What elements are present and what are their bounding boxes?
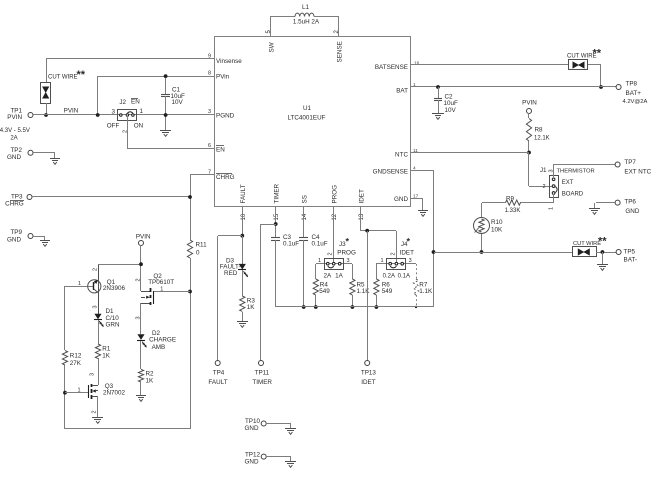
svg-text:1: 1 bbox=[318, 258, 321, 264]
svg-text:R11: R11 bbox=[196, 242, 208, 249]
svg-text:AMB: AMB bbox=[152, 344, 166, 351]
svg-text:1.1K: 1.1K bbox=[357, 288, 371, 295]
svg-text:TIMER: TIMER bbox=[252, 379, 272, 386]
svg-text:THERMISTOR: THERMISTOR bbox=[557, 169, 595, 175]
svg-text:**: ** bbox=[598, 235, 607, 247]
svg-text:2N3906: 2N3906 bbox=[103, 285, 126, 292]
svg-text:CUT WIRE: CUT WIRE bbox=[573, 241, 601, 247]
svg-text:TP4: TP4 bbox=[213, 370, 225, 377]
svg-text:3: 3 bbox=[409, 258, 412, 264]
svg-text:1: 1 bbox=[380, 258, 383, 264]
svg-text:3: 3 bbox=[90, 373, 96, 376]
svg-text:R1: R1 bbox=[102, 346, 111, 353]
svg-text:FAULT: FAULT bbox=[240, 184, 247, 203]
svg-text:2A: 2A bbox=[10, 136, 17, 142]
svg-text:LTC4001EUF: LTC4001EUF bbox=[287, 115, 325, 122]
svg-text:1: 1 bbox=[78, 281, 81, 287]
svg-text:1: 1 bbox=[160, 286, 163, 292]
svg-text:ON: ON bbox=[134, 123, 144, 130]
svg-text:FAULT: FAULT bbox=[208, 379, 227, 386]
svg-text:RED: RED bbox=[224, 270, 238, 277]
svg-text:10uF: 10uF bbox=[444, 100, 459, 107]
svg-text:2: 2 bbox=[91, 410, 97, 413]
svg-text:1: 1 bbox=[549, 207, 555, 210]
svg-text:R9: R9 bbox=[506, 195, 515, 202]
svg-text:NTC: NTC bbox=[395, 151, 408, 158]
svg-text:TP12: TP12 bbox=[245, 451, 261, 458]
svg-text:2A: 2A bbox=[323, 273, 332, 280]
svg-text:2: 2 bbox=[390, 252, 396, 255]
svg-text:Vinsense: Vinsense bbox=[216, 58, 242, 65]
svg-text:PROG: PROG bbox=[337, 249, 356, 256]
svg-text:GND: GND bbox=[7, 154, 21, 161]
svg-text:3: 3 bbox=[347, 258, 350, 264]
svg-text:SW: SW bbox=[268, 42, 275, 52]
svg-text:TP8: TP8 bbox=[626, 81, 638, 88]
svg-text:GND: GND bbox=[7, 236, 21, 243]
svg-text:3: 3 bbox=[549, 169, 555, 172]
svg-text:J2: J2 bbox=[119, 99, 126, 106]
svg-text:0.1uF: 0.1uF bbox=[312, 241, 328, 248]
svg-text:1A: 1A bbox=[335, 273, 344, 280]
svg-text:IDET: IDET bbox=[361, 379, 375, 386]
svg-text:10: 10 bbox=[241, 213, 247, 220]
svg-text:0: 0 bbox=[196, 250, 200, 257]
svg-text:GRN: GRN bbox=[106, 322, 120, 329]
svg-text:TP0610T: TP0610T bbox=[148, 279, 174, 286]
svg-text:0.1A: 0.1A bbox=[398, 274, 410, 280]
svg-text:*: * bbox=[346, 237, 350, 247]
svg-text:EN: EN bbox=[216, 146, 225, 153]
svg-text:1.5uH 2A: 1.5uH 2A bbox=[293, 19, 320, 26]
svg-text:1: 1 bbox=[413, 82, 416, 88]
svg-text:8: 8 bbox=[208, 71, 211, 77]
svg-text:1: 1 bbox=[77, 388, 80, 394]
svg-text:U1: U1 bbox=[303, 105, 312, 112]
svg-text:1K: 1K bbox=[102, 353, 111, 360]
svg-text:R8: R8 bbox=[535, 127, 544, 134]
svg-text:16: 16 bbox=[414, 60, 420, 66]
svg-text:12: 12 bbox=[332, 213, 338, 220]
svg-text:12.1K: 12.1K bbox=[534, 135, 550, 141]
svg-text:EXT: EXT bbox=[562, 180, 574, 186]
svg-text:10K: 10K bbox=[491, 227, 503, 234]
svg-text:CHRG: CHRG bbox=[216, 174, 235, 181]
svg-text:10V: 10V bbox=[445, 107, 457, 114]
svg-text:0.2A: 0.2A bbox=[383, 274, 395, 280]
svg-text:TP6: TP6 bbox=[624, 198, 636, 205]
svg-text:2: 2 bbox=[136, 278, 142, 281]
svg-text:GND: GND bbox=[394, 196, 408, 203]
svg-text:549: 549 bbox=[319, 288, 330, 295]
svg-text:TP5: TP5 bbox=[624, 248, 636, 255]
svg-text:1.33K: 1.33K bbox=[505, 208, 521, 214]
svg-text:PVIN: PVIN bbox=[522, 99, 537, 106]
svg-text:PGND: PGND bbox=[216, 112, 235, 119]
svg-text:PVIN: PVIN bbox=[64, 108, 79, 115]
svg-text:PVin: PVin bbox=[216, 74, 230, 81]
svg-text:4.2V@2A: 4.2V@2A bbox=[623, 99, 648, 105]
svg-text:IDET: IDET bbox=[358, 189, 365, 203]
svg-text:OFF: OFF bbox=[107, 123, 120, 130]
svg-text:PVIN: PVIN bbox=[7, 114, 22, 121]
svg-text:GND: GND bbox=[625, 208, 639, 215]
svg-text:6: 6 bbox=[208, 143, 211, 149]
svg-text:R10: R10 bbox=[491, 219, 503, 226]
svg-text:2: 2 bbox=[542, 184, 545, 190]
svg-text:GND: GND bbox=[245, 425, 259, 432]
svg-text:4.3V - 5.5V: 4.3V - 5.5V bbox=[0, 128, 30, 134]
svg-text:BAT: BAT bbox=[396, 87, 408, 94]
svg-text:1.1K: 1.1K bbox=[419, 288, 433, 295]
svg-text:BATSENSE: BATSENSE bbox=[375, 64, 408, 71]
svg-text:GND: GND bbox=[245, 458, 259, 465]
svg-text:PVIN: PVIN bbox=[136, 233, 151, 240]
svg-text:27K: 27K bbox=[70, 360, 82, 367]
svg-text:IDET: IDET bbox=[400, 249, 414, 256]
svg-text:1K: 1K bbox=[247, 304, 256, 311]
svg-text:*: * bbox=[407, 237, 411, 247]
svg-text:**: ** bbox=[77, 69, 86, 81]
svg-text:PROG: PROG bbox=[331, 185, 338, 204]
svg-text:R12: R12 bbox=[70, 353, 82, 360]
svg-text:TP10: TP10 bbox=[245, 418, 261, 425]
svg-text:0.1uF: 0.1uF bbox=[283, 241, 299, 248]
svg-text:BOARD: BOARD bbox=[562, 191, 584, 197]
svg-text:R2: R2 bbox=[146, 371, 155, 378]
svg-text:2: 2 bbox=[92, 268, 98, 271]
svg-text:EN: EN bbox=[131, 99, 140, 106]
svg-text:BAT+: BAT+ bbox=[626, 90, 642, 97]
svg-text:CHRG: CHRG bbox=[5, 201, 24, 208]
svg-text:TIMER: TIMER bbox=[274, 183, 281, 203]
svg-text:SENSE: SENSE bbox=[336, 41, 343, 62]
svg-text:SS: SS bbox=[302, 195, 309, 203]
svg-text:1K: 1K bbox=[146, 378, 155, 385]
svg-text:1: 1 bbox=[140, 108, 144, 115]
svg-text:2N7002: 2N7002 bbox=[103, 389, 126, 396]
svg-text:TP7: TP7 bbox=[624, 159, 636, 166]
svg-text:TP13: TP13 bbox=[361, 370, 377, 377]
svg-text:CHARGE: CHARGE bbox=[149, 336, 176, 343]
svg-text:EXT NTC: EXT NTC bbox=[624, 168, 651, 175]
svg-text:BAT-: BAT- bbox=[624, 257, 638, 264]
svg-text:10V: 10V bbox=[172, 99, 184, 106]
svg-text:3: 3 bbox=[92, 305, 98, 308]
svg-text:13: 13 bbox=[359, 213, 365, 220]
svg-text:L1: L1 bbox=[302, 4, 310, 11]
svg-text:GNDSENSE: GNDSENSE bbox=[373, 168, 408, 175]
svg-text:3: 3 bbox=[111, 109, 115, 116]
svg-text:TP11: TP11 bbox=[255, 370, 270, 377]
svg-text:2: 2 bbox=[328, 252, 334, 255]
svg-text:549: 549 bbox=[382, 288, 393, 295]
svg-text:CUT WIRE: CUT WIRE bbox=[48, 75, 78, 81]
svg-text:J1: J1 bbox=[540, 167, 547, 174]
svg-text:**: ** bbox=[593, 48, 602, 60]
svg-text:TP9: TP9 bbox=[10, 229, 22, 236]
